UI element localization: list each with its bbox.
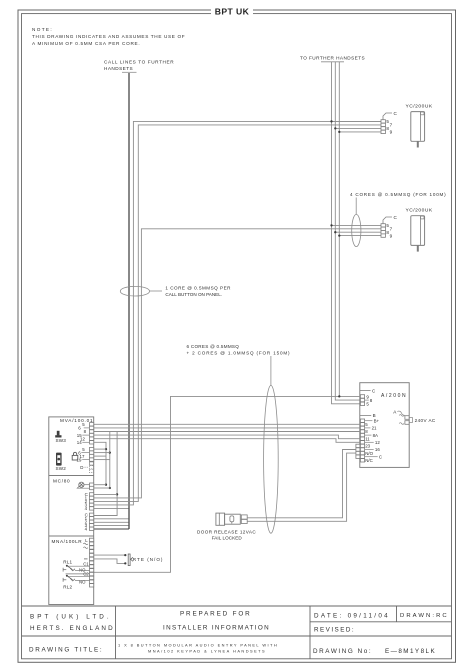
panel section divider 2 — [49, 535, 94, 537]
label SW2 — [56, 466, 67, 471]
label 1 core per call button — [165, 285, 231, 297]
handset U2 YC/200UK lower — [406, 208, 433, 252]
svg-text:N/O: N/O — [365, 451, 373, 456]
svg-text:1 X 8 BUTTON MODULAR AUDIO ENT: 1 X 8 BUTTON MODULAR AUDIO ENTRY PANEL W… — [118, 642, 277, 647]
switch SW3 icon — [55, 431, 61, 438]
junction dot handset2-9 — [338, 234, 340, 236]
handset U1 YC/200UK upper — [406, 104, 433, 148]
label door release — [197, 529, 256, 540]
svg-text:INSTALLER INFORMATION: INSTALLER INFORMATION — [163, 625, 269, 632]
svg-text:A MINIMUM OF 0.5MM CSA PER COR: A MINIMUM OF 0.5MM CSA PER CORE. — [32, 41, 140, 46]
svg-text:4 CORES @ 0.5MMSQ (FOR 100M): 4 CORES @ 0.5MMSQ (FOR 100M) — [350, 192, 446, 197]
junction dot MC-C tap — [116, 493, 118, 495]
svg-text:6 CORES @ 0.5MMSQ: 6 CORES @ 0.5MMSQ — [187, 344, 240, 349]
svg-text:RTE (N/O): RTE (N/O) — [133, 557, 163, 562]
wire handset bus 9 — [338, 62, 340, 396]
connector handset1 (terminals C 5 7 8 9) — [381, 111, 398, 135]
svg-text:MNA/102 KEYPAD & LYNEA HANDSET: MNA/102 KEYPAD & LYNEA HANDSETS — [148, 649, 265, 654]
svg-text:9: 9 — [390, 130, 393, 135]
junction dot RTE lower — [124, 562, 126, 564]
svg-text:23: 23 — [365, 444, 370, 449]
wire handset1 terminal 9 — [339, 131, 381, 133]
svg-text:14: 14 — [77, 440, 82, 445]
wire handset1 terminal 8 — [335, 127, 381, 129]
label A/200N — [381, 393, 406, 399]
wire call line main corner — [94, 528, 129, 530]
A/200N outer terminal column — [356, 444, 360, 458]
A/200N top terminals (C 9 8 5) — [360, 388, 376, 406]
A/200N mains input terminals with 240V AC label — [393, 409, 436, 424]
wire bus 11 (panel to PSU) — [94, 439, 360, 443]
wire door release live — [247, 450, 356, 518]
note text — [32, 27, 185, 46]
wire MVA2-5 feed — [94, 448, 106, 450]
svg-text:C1: C1 — [83, 562, 89, 567]
MVA terminal block — [77, 422, 94, 462]
entry panel box — [49, 417, 94, 605]
svg-text:11: 11 — [365, 436, 370, 441]
title block drawing number — [313, 648, 435, 655]
wire lamp2 feed — [94, 487, 110, 489]
svg-text:FAIL LOCKED: FAIL LOCKED — [212, 536, 243, 541]
cable ellipse 8-core with leader — [264, 356, 279, 533]
svg-text:YC/200UK: YC/200UK — [406, 208, 433, 214]
wire handset2 terminal 7 tail — [381, 228, 383, 230]
svg-text:7: 7 — [390, 123, 393, 128]
junction dot RTE upper — [124, 554, 126, 556]
label 4 cores — [350, 192, 446, 197]
svg-text:SW2: SW2 — [56, 466, 67, 471]
svg-text:YC/200UK: YC/200UK — [406, 104, 433, 110]
wire call button 1 — [94, 121, 383, 505]
svg-text:SW3: SW3 — [56, 438, 67, 443]
wire handset1 terminal 5 — [332, 120, 382, 122]
junction dot riser-bus9 — [338, 395, 340, 397]
svg-text:BPT UK: BPT UK — [215, 6, 250, 16]
svg-text:12: 12 — [375, 440, 380, 445]
connector handset2 (terminals C 5 7 8 9) — [381, 215, 398, 239]
key lock icon — [72, 452, 78, 460]
junction dot lamp tap — [105, 484, 107, 486]
svg-text:TO FURTHER HANDSETS: TO FURTHER HANDSETS — [300, 56, 365, 61]
junction dot handset2-8 — [334, 231, 336, 233]
svg-text:7: 7 — [390, 227, 393, 232]
svg-text:MNA/100LR: MNA/100LR — [52, 539, 83, 544]
wire lamp feed — [94, 484, 106, 486]
label RTE — [133, 557, 163, 562]
panel section divider 1 — [49, 475, 94, 477]
cable ellipse call-buttons with leader — [120, 286, 162, 296]
wire call button 2 — [94, 125, 383, 502]
svg-text:D: D — [80, 465, 83, 470]
wire call line main (dark) — [128, 73, 130, 529]
junction dot lamp2 tap — [109, 487, 111, 489]
svg-text:16: 16 — [375, 447, 380, 452]
svg-text:HANDSETS: HANDSETS — [104, 66, 133, 71]
svg-text:1 CORE @ 0.5MMSQ PER: 1 CORE @ 0.5MMSQ PER — [165, 285, 231, 290]
svg-text:PREPARED FOR: PREPARED FOR — [180, 611, 250, 618]
svg-text:MC/80: MC/80 — [53, 478, 70, 483]
wire MVA-14 drop — [94, 442, 106, 484]
svg-text:RL1: RL1 — [63, 560, 72, 565]
MVA dashed option terminals — [80, 462, 93, 473]
svg-text:THIS DRAWING INDICATES AND ASS: THIS DRAWING INDICATES AND ASSUMES THE U… — [32, 34, 185, 39]
junction dot handset1-9 — [338, 131, 340, 133]
svg-text:+ 2 CORES @ 1.0MMSQ (FOR 150M): + 2 CORES @ 1.0MMSQ (FOR 150M) — [187, 350, 291, 355]
title block company text — [30, 614, 113, 632]
svg-text:DOOR RELEASE 12VAC: DOOR RELEASE 12VAC — [197, 529, 256, 534]
switch RTE — [128, 554, 133, 566]
svg-text:DRAWING TITLE:: DRAWING TITLE: — [29, 647, 102, 654]
title block date — [314, 612, 388, 619]
label MC/80 — [53, 478, 70, 483]
wire call button 3 — [94, 229, 383, 498]
svg-text:DRAWING No:: DRAWING No: — [313, 648, 371, 655]
svg-text:8A: 8A — [373, 433, 378, 438]
cable ellipse 4-core with leader — [352, 198, 361, 247]
junction dot MVA2-5 tap — [105, 448, 107, 450]
wire door release return — [247, 453, 356, 521]
svg-text:9: 9 — [390, 233, 393, 238]
junction dot handset2-5 — [330, 224, 332, 226]
title block revised — [314, 627, 354, 634]
wire MVA2-17 stub — [94, 455, 106, 457]
wire MVA-15 drop — [94, 432, 117, 516]
label MVA/100.01 — [60, 418, 93, 423]
wire handset1 terminal 7 tail — [381, 124, 383, 126]
MNA terminal block — [79, 538, 94, 587]
wire handset bus 8 — [335, 62, 360, 400]
wire RTE lower — [94, 559, 125, 564]
wire bus 8A (panel to PSU) — [94, 435, 360, 439]
title block grid — [22, 606, 452, 659]
svg-text:CALL LINES TO FURTHER: CALL LINES TO FURTHER — [104, 60, 174, 65]
door release lock symbol — [216, 513, 247, 525]
A/200N lower terminals (B B+ 5 21 8 8A 11 12 23 16 N/O C N/C) — [360, 413, 382, 463]
switch SW2 icon — [56, 453, 62, 466]
wire handset2 terminal 5 — [332, 224, 382, 226]
wire bus 5 (panel to PSU) — [94, 423, 360, 425]
svg-text:NOTE:: NOTE: — [32, 27, 52, 32]
wire handset2 terminal 9 — [339, 235, 381, 237]
wire handset2 terminal 8 — [335, 231, 381, 233]
junction dot handset1-5 — [330, 120, 332, 122]
svg-text:N/C: N/C — [365, 458, 373, 463]
svg-text:240V AC: 240V AC — [415, 418, 436, 423]
svg-text:E—8M1Y8LK: E—8M1Y8LK — [385, 648, 435, 655]
label 6 cores — [187, 344, 291, 356]
title block drawn — [400, 613, 447, 619]
title BPT UK — [211, 6, 253, 16]
svg-text:REVISED:: REVISED: — [314, 627, 354, 634]
svg-text:HERTS. ENGLAND: HERTS. ENGLAND — [30, 625, 113, 632]
svg-text:CALL BUTTON ON PANEL.: CALL BUTTON ON PANEL. — [165, 292, 222, 297]
svg-text:B+: B+ — [374, 418, 380, 423]
svg-text:C: C — [379, 454, 382, 459]
wire MVA-8 drop — [109, 432, 111, 489]
wire MVA2-19 stub — [94, 459, 110, 461]
svg-text:MVA/100.01: MVA/100.01 — [60, 418, 93, 423]
relay RL2 contact — [63, 575, 89, 590]
label call lines to further handsets — [104, 60, 174, 73]
MC/80 terminal block — [85, 483, 94, 532]
wire MC-2B stub — [94, 521, 129, 523]
junction dot handset1-8 — [334, 127, 336, 129]
label MNA/100LR — [52, 539, 83, 544]
label to further handsets — [300, 56, 365, 62]
wire MC-1B stub — [94, 518, 129, 520]
title block prepared text — [163, 611, 269, 632]
label SW3 — [56, 438, 67, 443]
wire bus 21 (panel to PSU) — [94, 427, 360, 429]
svg-text:RL2: RL2 — [63, 585, 72, 590]
title block drawing title — [29, 642, 277, 653]
wire MC-C feed — [94, 493, 117, 495]
svg-text:21: 21 — [372, 426, 377, 431]
wire bus 8 (panel to PSU) — [94, 431, 360, 433]
lamp MC/80 icon — [77, 482, 89, 488]
wire handset bus 5 — [332, 62, 361, 404]
relay RL1 contact — [63, 560, 89, 574]
junction dot MVA2-6 tap — [109, 451, 111, 453]
wire audio riser to terminal 9 — [94, 396, 360, 572]
wire MC-4A stub — [94, 507, 129, 509]
power supply U3 A/200N box — [360, 383, 409, 468]
wire MVA2-6 feed — [94, 452, 110, 454]
wire MC-3B stub — [94, 525, 129, 527]
svg-text:DRAWN:RC: DRAWN:RC — [400, 613, 447, 619]
wire RTE upper — [94, 554, 125, 556]
